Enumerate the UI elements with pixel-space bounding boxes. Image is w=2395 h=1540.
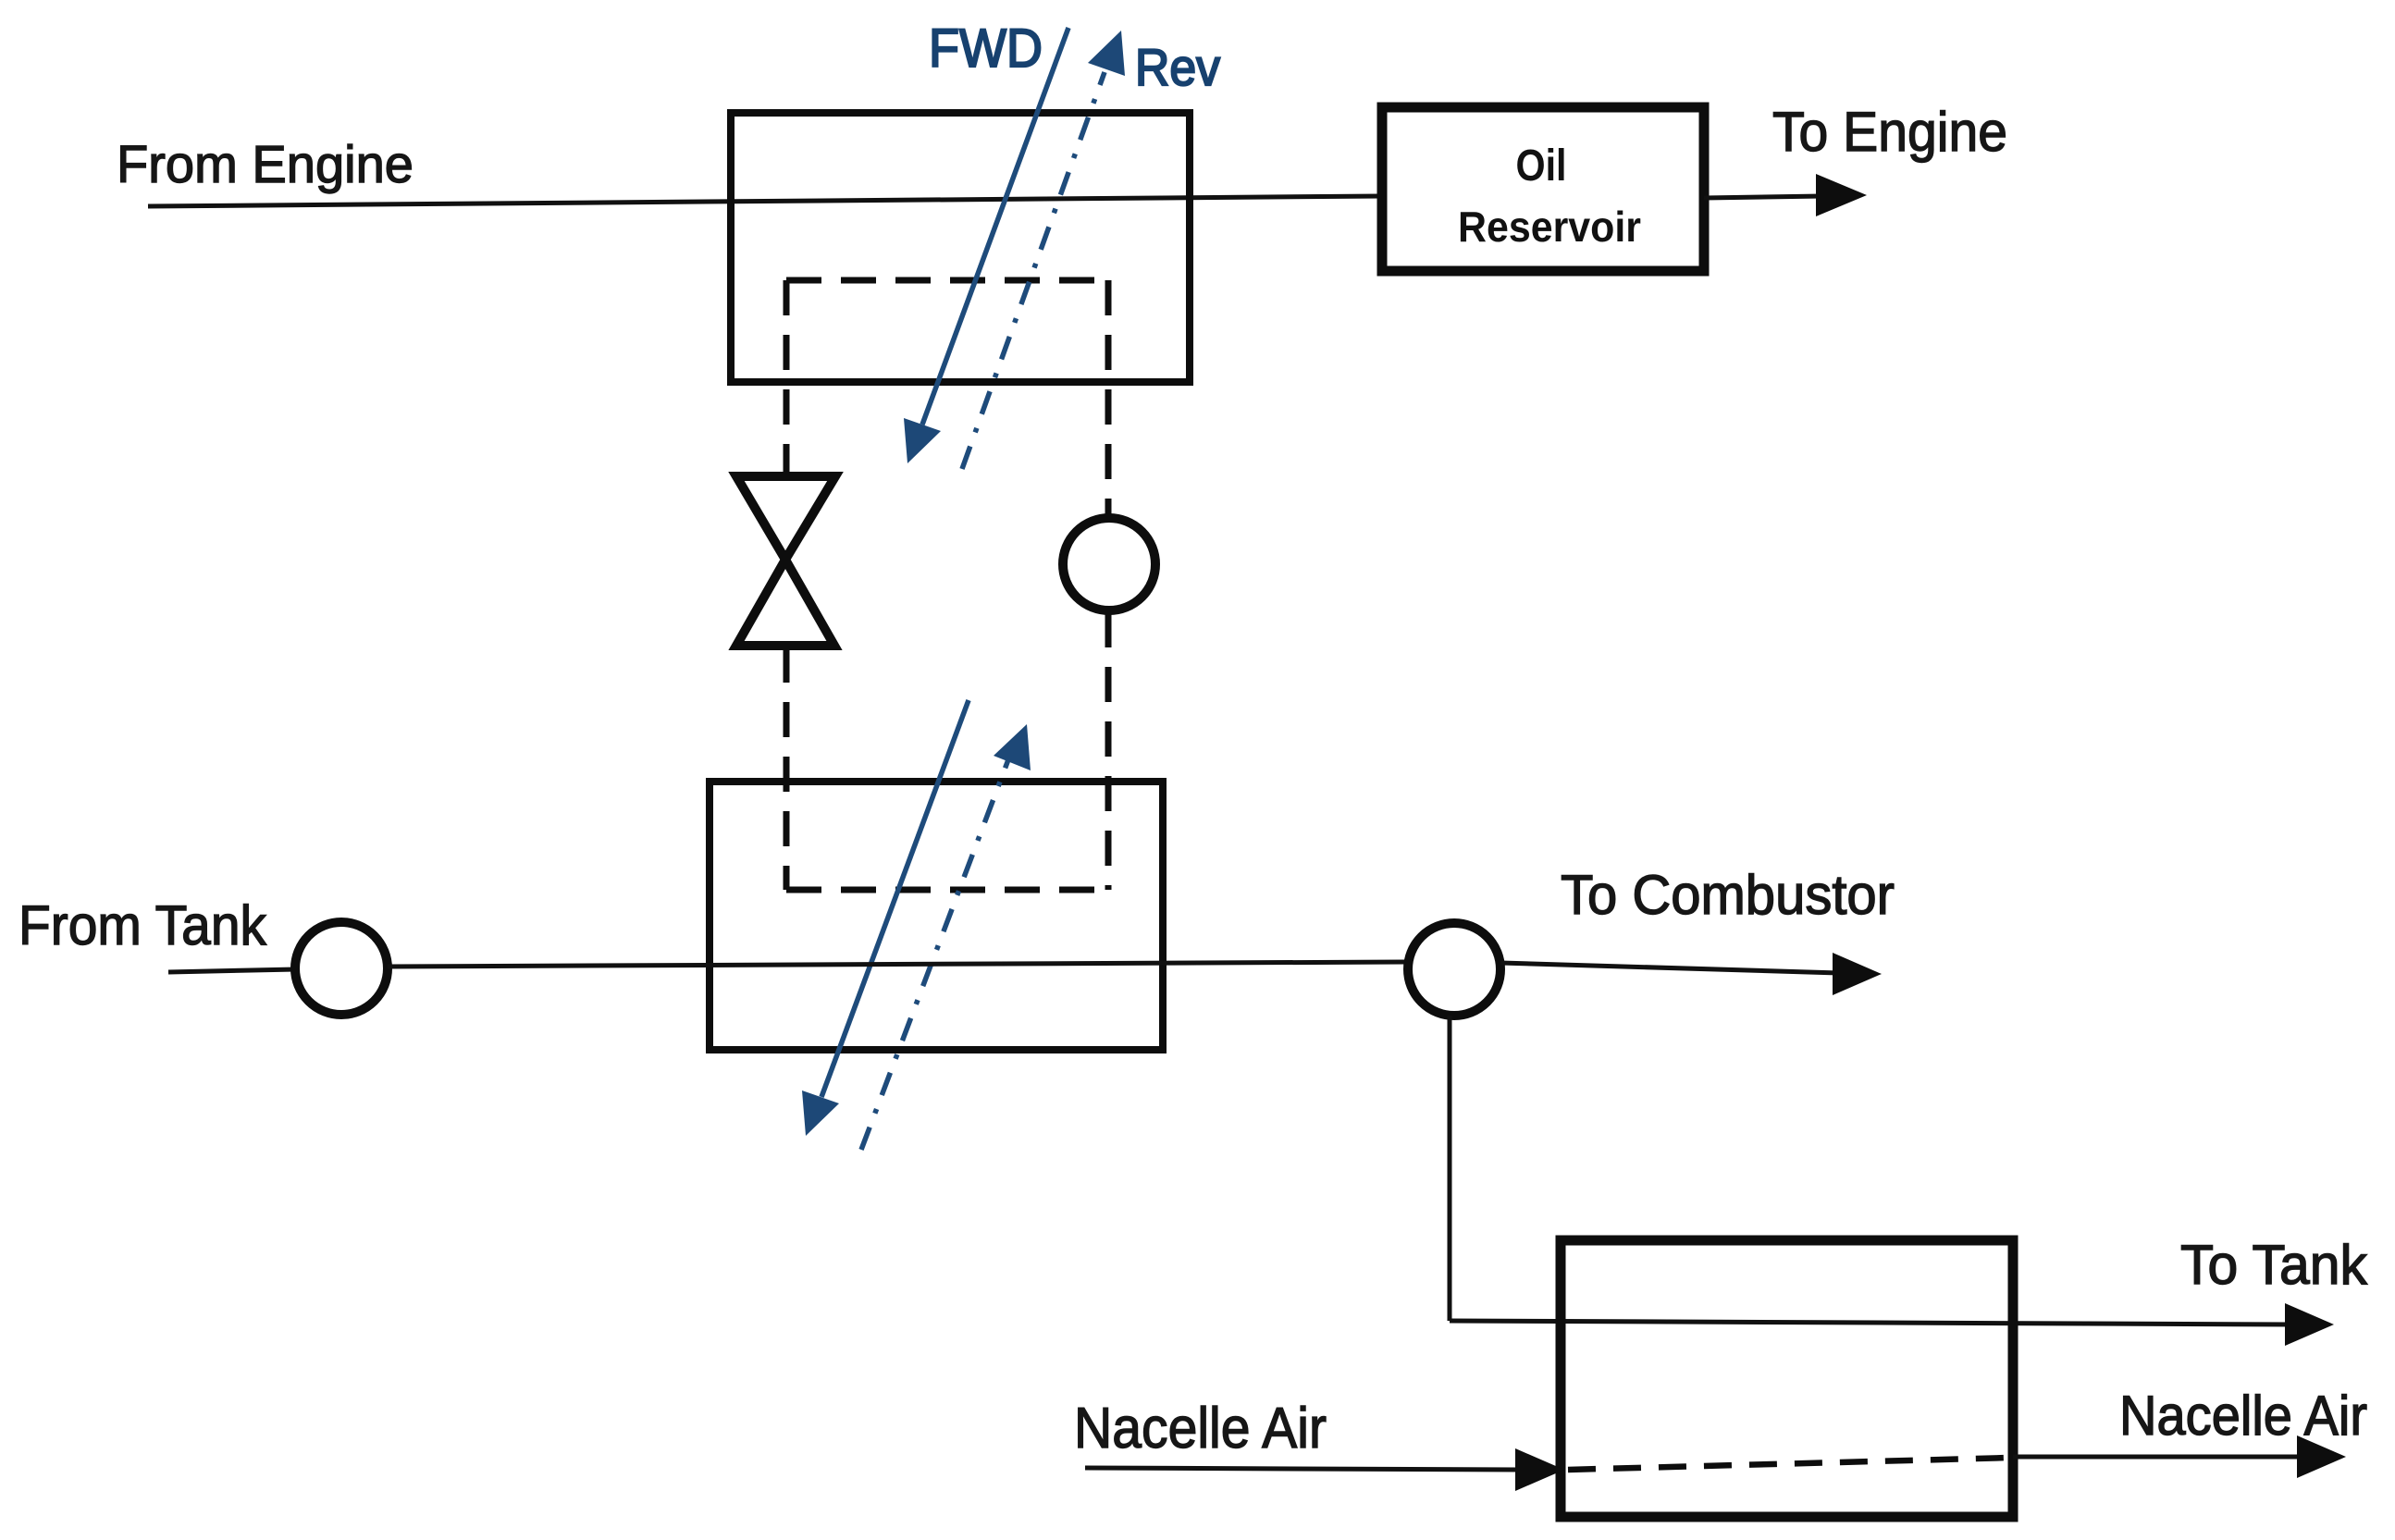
Rev dash-dot flow line (upper exchanger) bbox=[962, 72, 1105, 469]
Rev arrowhead (lower) bbox=[994, 724, 1031, 770]
wire oil reservoir to engine bbox=[1704, 196, 1822, 198]
dashed bypass left wire (upper part) bbox=[784, 280, 790, 476]
valve (bowtie) on left bypass bbox=[736, 476, 835, 646]
Rev arrowhead (upper) bbox=[1088, 31, 1125, 76]
wire nacelle air inlet bbox=[1085, 1468, 1519, 1470]
wire nacelle air outlet bbox=[2013, 1455, 2303, 1460]
arrowhead To Tank bbox=[2285, 1303, 2334, 1346]
FWD arrowhead (upper) bbox=[904, 418, 941, 463]
wire junction down bbox=[1448, 1016, 1452, 1321]
pump circle on right bypass bbox=[1063, 518, 1155, 610]
Oil Reservoir box bbox=[1382, 107, 1704, 271]
FWD arrowhead (lower) bbox=[802, 1090, 839, 1136]
heat exchanger box 3 (fuel / nacelle air cooler) bbox=[1561, 1240, 2013, 1517]
dashed bypass right wire (upper part) bbox=[1105, 280, 1112, 516]
dashed bypass box bottom edge bbox=[786, 887, 1108, 893]
svg-text:Nacelle Air: Nacelle Air bbox=[1074, 1397, 1327, 1460]
dashed bypass left wire (lower part) bbox=[784, 647, 790, 890]
svg-text:Oil: Oil bbox=[1516, 142, 1567, 191]
dashed air path inside cooler bbox=[1568, 1458, 2009, 1470]
dashed bypass right wire (lower part) bbox=[1105, 612, 1112, 890]
wire circle to junction through lower exchanger bbox=[388, 962, 1408, 967]
wire bend to tank line through fuel-air cooler bbox=[1450, 1321, 2294, 1324]
FWD flow line (upper exchanger) bbox=[922, 28, 1068, 425]
junction circle bbox=[1408, 923, 1500, 1016]
svg-text:To Engine: To Engine bbox=[1772, 101, 2007, 163]
heat exchanger box 1 (upper, fuel-oil) bbox=[731, 113, 1190, 382]
svg-text:Nacelle Air: Nacelle Air bbox=[2119, 1385, 2367, 1447]
svg-text:To Combustor: To Combustor bbox=[1561, 864, 1895, 926]
Rev dash-dot flow line (lower exchanger) bbox=[861, 755, 1010, 1150]
arrowhead To Combustor bbox=[1833, 953, 1882, 995]
svg-text:To Tank: To Tank bbox=[2180, 1234, 2368, 1296]
svg-text:Reservoir: Reservoir bbox=[1458, 203, 1641, 251]
wire from tank to check circle bbox=[168, 969, 296, 972]
wire junction to combustor arrow bbox=[1500, 963, 1839, 973]
svg-text:FWD: FWD bbox=[929, 18, 1043, 79]
heat exchanger box 2 (lower) bbox=[710, 782, 1163, 1050]
arrowhead nacelle air out bbox=[2297, 1435, 2346, 1478]
svg-text:Rev: Rev bbox=[1135, 38, 1220, 96]
svg-text:From Engine: From Engine bbox=[117, 135, 414, 194]
wire from-engine line into upper heat exchanger bbox=[148, 196, 1382, 206]
dashed bypass box top edge bbox=[786, 277, 1108, 284]
arrowhead nacelle air into cooler bbox=[1515, 1448, 1564, 1491]
FWD flow line (lower exchanger) bbox=[821, 700, 969, 1097]
svg-text:From Tank: From Tank bbox=[19, 894, 267, 956]
arrowhead To Engine bbox=[1816, 174, 1867, 216]
inline circle (from tank) bbox=[295, 922, 388, 1015]
